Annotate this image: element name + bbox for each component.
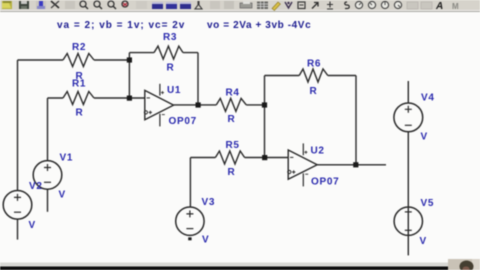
voltage source V5	[394, 207, 422, 255]
svg-text:V1: V1	[60, 153, 74, 164]
ground below V3	[188, 237, 191, 240]
svg-text:OP07: OP07	[169, 116, 197, 127]
toolbar icon: gauge2	[368, 1, 375, 8]
wire summing node vertical	[128, 53, 130, 98]
wire R3 right vertical	[197, 53, 199, 105]
resistor R3	[154, 46, 183, 59]
toolbar icon: zoom1	[80, 1, 88, 9]
toolbar background	[0, 0, 480, 11]
svg-text:OP07: OP07	[311, 177, 339, 188]
wire R6 right vertical to output	[355, 76, 357, 165]
voltage source V2	[3, 191, 32, 240]
resistor R6	[299, 69, 328, 82]
toolbar icon: disabled pair	[407, 2, 432, 9]
svg-text:vo = 2Va + 3vb -4Vc: vo = 2Va + 3vb -4Vc	[207, 20, 311, 31]
resistor R4	[216, 98, 246, 111]
toolbar icon: cut	[51, 1, 59, 8]
svg-text:R6: R6	[307, 59, 321, 70]
toolbar icon: S glyph	[345, 2, 350, 9]
toolbar icon: faint sheet	[136, 1, 147, 9]
svg-text:R: R	[228, 167, 236, 178]
wire R5 left vertical to V3	[189, 158, 191, 208]
junction at U2 inverting input	[262, 155, 267, 160]
toolbar icon: open folder	[2, 1, 12, 9]
toolbar icon: gauge4	[394, 1, 401, 8]
svg-text:U1: U1	[167, 85, 181, 96]
toolbar icon: dark box glyph	[298, 2, 305, 9]
svg-text:R3: R3	[163, 32, 177, 43]
wire R2 row	[18, 59, 130, 61]
junction at U2 output node	[353, 162, 358, 167]
wire R6 row	[265, 75, 357, 77]
junction at U1 output node	[196, 102, 201, 107]
svg-text:A: A	[435, 1, 443, 12]
svg-text:R5: R5	[226, 140, 240, 151]
schematic group	[3, 46, 422, 255]
svg-text:V2: V2	[29, 181, 43, 192]
voltage source V3	[176, 207, 204, 235]
svg-text:va = 2; vb = 1v; vc= 2v: va = 2; vb = 1v; vc= 2v	[57, 20, 185, 31]
op-amp U2	[288, 143, 318, 186]
toolbar icon: faint doc 2	[224, 1, 234, 9]
toolbar icon: save	[19, 1, 29, 9]
svg-text:V: V	[202, 235, 209, 246]
toolbar icon: arrow	[312, 3, 318, 9]
toolbar icon: navy window 3	[180, 2, 191, 9]
toolbar icon: dark V glyph	[285, 2, 292, 8]
toolbar icon: paste faint	[65, 1, 75, 9]
wire U2 output row	[317, 164, 386, 166]
junction at U1 inverting input	[127, 96, 132, 101]
wire R5 row	[190, 157, 288, 159]
voltage source V4	[394, 81, 423, 207]
svg-text:R1: R1	[72, 79, 86, 90]
svg-text:R2: R2	[72, 42, 86, 53]
resistor R5	[215, 151, 244, 164]
toolbar icon: gauge3	[381, 1, 388, 8]
svg-text:V: V	[59, 190, 66, 201]
toolbar icon: zoom2	[94, 1, 102, 9]
wire R3 row	[129, 52, 198, 54]
toolbar icon: gauge1	[355, 1, 362, 8]
toolbar icon: navy window 2	[166, 2, 177, 9]
toolbar icon: plus-minus glyph	[327, 2, 333, 10]
svg-text:V: V	[421, 132, 428, 143]
toolbar icon: faint doc 1	[210, 1, 220, 9]
svg-text:V: V	[420, 236, 427, 247]
svg-text:V4: V4	[421, 93, 435, 104]
toolbar icon: pencil yellow	[272, 2, 280, 11]
toolbar icon: printer grey	[240, 1, 252, 8]
toolbar icon: dark glyph flask	[195, 1, 202, 9]
svg-text:U2: U2	[311, 146, 325, 157]
voltage source V1	[33, 161, 62, 212]
wire U1 output row	[174, 104, 265, 106]
wire R1 left vertical to V1	[47, 98, 49, 161]
svg-text:R: R	[228, 114, 236, 125]
svg-text:R4: R4	[226, 88, 240, 99]
wire R1 row	[48, 97, 145, 99]
webcam overlay	[448, 259, 480, 270]
svg-text:V: V	[29, 220, 36, 231]
junction at R4/R6 node	[262, 102, 267, 107]
wire R2 left vertical to V2	[17, 60, 19, 191]
svg-text:V5: V5	[421, 198, 435, 209]
wire node B vertical (R6 left / R4 / U2 in)	[264, 76, 266, 158]
svg-text:V3: V3	[202, 197, 216, 208]
toolbar icon: zoom red	[122, 1, 128, 7]
toolbar icon: zoom3	[108, 1, 116, 9]
junction at R2/R3 node	[127, 57, 132, 62]
svg-text:M: M	[452, 2, 459, 11]
bottom black bar	[0, 267, 480, 270]
svg-text:R: R	[310, 86, 318, 97]
toolbar icon: print blue	[36, 1, 46, 9]
bottom gray band	[0, 263, 480, 267]
resistor R1	[63, 92, 94, 105]
svg-text:R: R	[76, 108, 84, 119]
svg-text:R: R	[167, 63, 175, 74]
op-amp U1	[144, 84, 173, 127]
resistor R2	[63, 54, 94, 67]
toolbar icon: navy window 1	[152, 2, 163, 9]
toolbar icon: dark grid	[257, 2, 268, 10]
